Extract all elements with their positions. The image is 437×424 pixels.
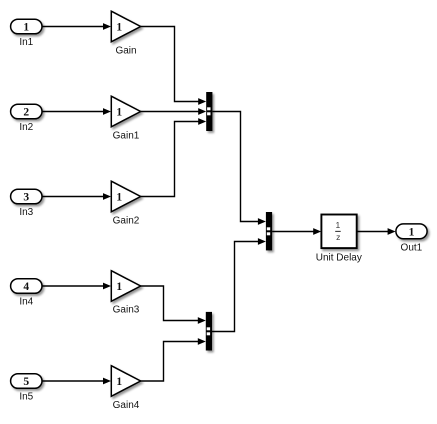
svg-text:Gain2: Gain2 xyxy=(113,216,140,227)
svg-text:1: 1 xyxy=(116,376,122,388)
svg-text:1: 1 xyxy=(116,281,122,293)
svg-text:z: z xyxy=(336,232,340,242)
svg-text:Gain3: Gain3 xyxy=(113,304,140,315)
svg-text:1: 1 xyxy=(116,22,122,34)
svg-text:Gain1: Gain1 xyxy=(113,131,140,142)
svg-text:In5: In5 xyxy=(19,392,33,403)
svg-text:1: 1 xyxy=(23,21,29,33)
svg-text:In1: In1 xyxy=(19,37,33,48)
svg-text:1: 1 xyxy=(336,220,341,230)
svg-text:3: 3 xyxy=(23,191,29,203)
svg-text:1: 1 xyxy=(409,226,415,238)
svg-text:Out1: Out1 xyxy=(401,243,423,254)
svg-text:2: 2 xyxy=(23,106,29,118)
svg-text:1: 1 xyxy=(116,107,122,119)
svg-text:5: 5 xyxy=(23,376,29,388)
svg-text:4: 4 xyxy=(23,281,29,293)
svg-text:Gain: Gain xyxy=(115,46,136,57)
svg-text:1: 1 xyxy=(116,192,122,204)
svg-text:Gain4: Gain4 xyxy=(113,400,140,411)
svg-text:In4: In4 xyxy=(19,297,33,308)
svg-text:In3: In3 xyxy=(19,207,33,218)
svg-text:In2: In2 xyxy=(19,122,33,133)
svg-text:Unit Delay: Unit Delay xyxy=(316,252,362,263)
